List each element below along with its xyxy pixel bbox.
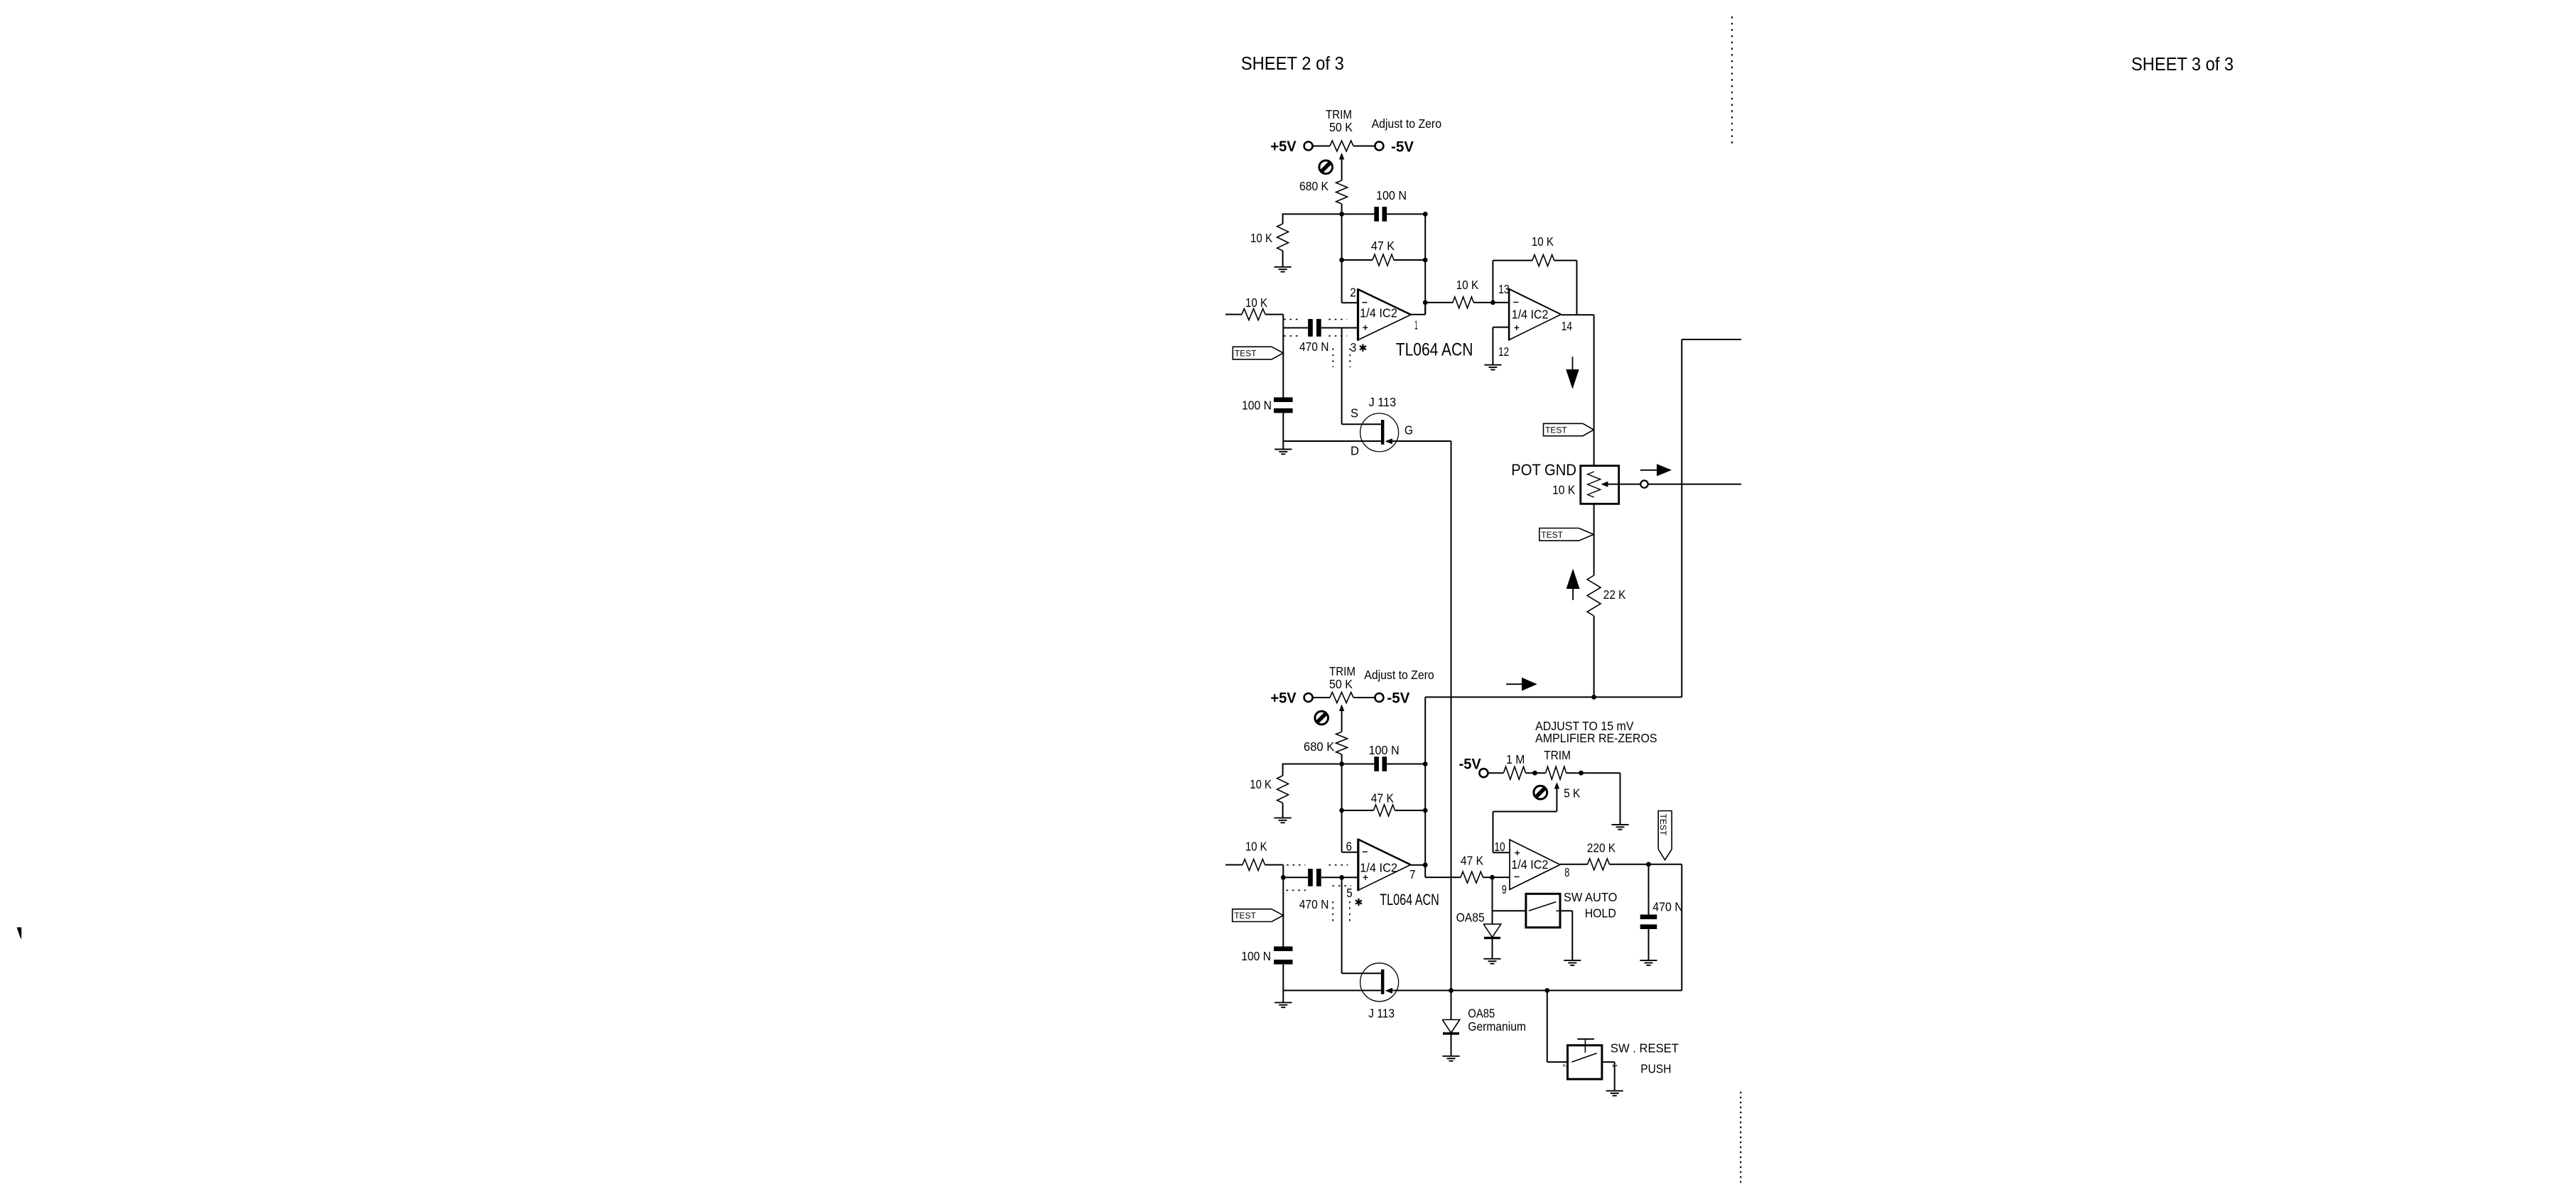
ground symbol (470N output cap)	[1640, 960, 1657, 961]
junction dot + input (bottom)	[1339, 875, 1344, 880]
wire shunt cap to D row (top)	[1282, 413, 1284, 441]
svg-text:100 N: 100 N	[1376, 188, 1407, 202]
junction dot B2-left	[1339, 808, 1344, 813]
wire 47K to pin 9	[1483, 877, 1510, 878]
wire + input row (bottom) right of cap	[1321, 877, 1358, 878]
wire pin9 node down to OA85 diode	[1492, 877, 1493, 924]
node row A1 wire left segment	[1283, 213, 1375, 215]
wire fb vertical x=2006 A1 to B1	[1424, 214, 1426, 260]
op-amp U1A minus sign	[1362, 302, 1367, 303]
terminal circle +5V (top)	[1304, 142, 1313, 151]
op-amp U1B minus sign	[1363, 851, 1368, 852]
wire U1A output corner	[1411, 314, 1425, 315]
svg-text:OA85: OA85	[1456, 911, 1485, 925]
ground symbol (top bias)	[1275, 266, 1292, 268]
svg-text:50 K: 50 K	[1329, 677, 1353, 691]
svg-text:TEST: TEST	[1235, 349, 1257, 359]
svg-text:47 K: 47 K	[1371, 791, 1394, 806]
wire fb vertical x=2006 A2-B2	[1424, 764, 1426, 810]
bus2 wire right segment	[1392, 989, 1682, 991]
right rect top wire to sheet edge	[1682, 339, 1741, 340]
op-amp U1A 1/4 IC2 triangle	[1357, 288, 1359, 340]
wire OA85 to ground	[1492, 938, 1493, 958]
op-amp U1D triangle	[1508, 288, 1510, 341]
capacitor 100 N (top feedback)	[1374, 207, 1379, 222]
svg-text:TEST: TEST	[1658, 814, 1668, 836]
resistor 10 K series	[1453, 297, 1473, 308]
wire JFET drain row (top) to ground node	[1283, 440, 1381, 442]
right rect vertical wire	[1681, 340, 1682, 698]
resistor 680 K (top)	[1336, 180, 1348, 204]
svg-text:5 K: 5 K	[1564, 786, 1581, 801]
trimmer wiper arrow (bottom)	[1339, 705, 1344, 712]
junction dot bus2/OA85	[1449, 988, 1454, 993]
wire wiper terminal to sheet edge	[1648, 484, 1741, 485]
svg-text:TEST: TEST	[1234, 911, 1256, 921]
capacitor 470 N (top input)	[1308, 319, 1313, 337]
asterisk mark (pin 5)	[1358, 899, 1359, 906]
wire node A2 down to bias 10K (bottom)	[1282, 764, 1284, 776]
wire trimmer to -5V terminal	[1353, 146, 1375, 147]
resistor 47 K (bottom feedback)	[1374, 805, 1395, 816]
wiper wire down-left to pin 10	[1556, 789, 1557, 812]
wire SW RESET to ground	[1602, 1061, 1615, 1063]
diode OA85 (hold)	[1483, 924, 1501, 938]
bus1 horizontal wire	[1425, 696, 1682, 698]
node row B2 wire left	[1342, 810, 1374, 811]
svg-text:+5V: +5V	[1270, 139, 1296, 155]
svg-text:D: D	[1351, 444, 1359, 458]
wire 680K to node A1	[1341, 204, 1343, 214]
svg-text:10 K: 10 K	[1552, 483, 1575, 497]
wire bus2 down to SW RESET	[1547, 990, 1548, 1062]
terminal circle -5V (top)	[1375, 142, 1383, 151]
switch SW RESET actuator	[1584, 1040, 1586, 1053]
diode OA85 germanium	[1442, 1020, 1460, 1034]
svg-text:-5V: -5V	[1459, 756, 1481, 773]
svg-text:OA85: OA85	[1468, 1006, 1495, 1020]
TEST tag (top input)	[1233, 347, 1283, 359]
svg-text:50 K: 50 K	[1329, 120, 1353, 134]
wire + input row (top) right of cap	[1321, 327, 1358, 329]
wire 680K to node A2	[1341, 754, 1343, 764]
wire into op-amp pin 6	[1342, 852, 1358, 853]
wire output down to POT GND	[1593, 315, 1595, 466]
resistor 10 K feedback (U1D)	[1532, 255, 1554, 266]
wire fb vertical B1 down to output corner	[1424, 260, 1426, 315]
svg-text:10 K: 10 K	[1245, 839, 1267, 853]
potentiometer POT GND resistor element	[1588, 472, 1601, 497]
wire node A1 down to 10K bias (top)	[1282, 213, 1284, 224]
svg-text:S: S	[1351, 406, 1358, 421]
svg-text:-5V: -5V	[1391, 139, 1414, 156]
junction dot A1-right	[1423, 212, 1428, 217]
svg-text:100 N: 100 N	[1242, 398, 1272, 413]
svg-text:J 113: J 113	[1369, 395, 1397, 409]
op-amp U1D plus sign	[1515, 327, 1520, 328]
svg-text:SW AUTO: SW AUTO	[1564, 890, 1618, 904]
svg-text:10 K: 10 K	[1532, 234, 1554, 249]
ground symbol (top input node)	[1275, 449, 1292, 450]
svg-text:100 N: 100 N	[1241, 949, 1271, 963]
svg-text:TL064 ACN: TL064 ACN	[1380, 891, 1439, 909]
svg-text:HOLD: HOLD	[1585, 906, 1616, 921]
svg-text:100 N: 100 N	[1369, 743, 1400, 757]
svg-text:1/4 IC2: 1/4 IC2	[1360, 861, 1397, 875]
junction dot A1-left	[1339, 212, 1344, 217]
node row A2 wire left	[1283, 764, 1375, 765]
input node vertical (bottom)	[1282, 865, 1284, 947]
U1C output wire to 220K	[1560, 864, 1588, 865]
page-edge artifact wedge	[17, 928, 22, 940]
svg-text:Germanium: Germanium	[1468, 1019, 1526, 1034]
svg-text:14: 14	[1562, 319, 1572, 333]
bus2 wire left segment	[1283, 989, 1381, 991]
wire 1M to trimmer 5K	[1526, 772, 1546, 774]
sheet cut dotted line bottom right	[1740, 1092, 1741, 1183]
resistor 10 K bias (bottom)	[1277, 776, 1289, 803]
op-amp U1D minus sign	[1513, 302, 1518, 303]
wire OA85 germanium to ground	[1451, 1034, 1452, 1056]
resistor 47 K (top feedback)	[1373, 254, 1394, 266]
svg-text:1/4 IC2: 1/4 IC2	[1360, 305, 1397, 320]
annotation right arrow (bus1)	[1506, 683, 1522, 685]
junction dot bus2/SW RESET	[1544, 988, 1549, 993]
svg-text:10 K: 10 K	[1456, 278, 1479, 292]
svg-text:8: 8	[1564, 865, 1569, 879]
svg-text:TRIM: TRIM	[1326, 107, 1352, 121]
wire -5V to 1M	[1488, 772, 1503, 774]
svg-text:1/4 IC2: 1/4 IC2	[1512, 308, 1549, 322]
capacitor 100 N (bottom feedback)	[1374, 756, 1379, 771]
svg-text:AMPLIFIER RE-ZEROS: AMPLIFIER RE-ZEROS	[1535, 731, 1657, 745]
bus2 right corner up to 220K node	[1681, 864, 1682, 991]
svg-text:1: 1	[1414, 318, 1418, 332]
wire 22K down to bus1	[1593, 616, 1595, 697]
op-amp U1C minus sign	[1515, 876, 1520, 877]
capacitor 470 N (bottom input)	[1308, 869, 1313, 886]
screwdriver adjust symbol (top trimmer)	[1319, 161, 1333, 174]
svg-text:PUSH: PUSH	[1640, 1061, 1671, 1075]
resistor 1 M	[1503, 766, 1525, 779]
svg-text:Adjust to Zero: Adjust to Zero	[1372, 116, 1441, 131]
junction dot U1B output	[1423, 862, 1428, 867]
wire output node down and right to 47K	[1424, 865, 1426, 877]
annotation right arrow (pot wiper)	[1640, 470, 1657, 471]
bus1 left corner down to node A2	[1424, 697, 1426, 764]
wire fb node down to JFET source (top)	[1341, 328, 1343, 425]
node row A2 wire right	[1387, 764, 1425, 765]
wire fb vertical x=1888.6 A1 to B1	[1341, 214, 1343, 260]
capacitor 100 N shunt (bottom)	[1274, 946, 1292, 951]
wire +5V to trimmer (bottom)	[1313, 697, 1330, 698]
wire 5K to right corner	[1566, 772, 1620, 774]
svg-text:47 K: 47 K	[1461, 853, 1483, 867]
svg-text:12: 12	[1498, 345, 1509, 359]
wire + input row (bottom) left of cap	[1283, 877, 1308, 878]
ground symbol (OA85 hold)	[1483, 958, 1500, 960]
resistor 10 K bias (top)	[1277, 224, 1289, 251]
svg-text:680 K: 680 K	[1299, 179, 1328, 193]
svg-text:TEST: TEST	[1545, 425, 1567, 435]
wire into op-amp pin 2	[1342, 302, 1358, 303]
svg-text:9: 9	[1502, 882, 1507, 896]
junction dot B2-right	[1423, 808, 1428, 813]
terminal circle -5V (5K trim row)	[1479, 769, 1488, 777]
ground symbol (bottom bias)	[1275, 817, 1292, 818]
trimmer resistor 50 K (bottom)	[1330, 693, 1353, 703]
junction dot A2-left	[1339, 761, 1344, 766]
svg-text:22 K: 22 K	[1603, 587, 1626, 602]
svg-text:POT GND: POT GND	[1511, 461, 1576, 479]
junction dot B1-right	[1423, 258, 1428, 263]
trimmer resistor 5 K	[1546, 766, 1566, 779]
wire +5V to trimmer R TRIM 50K	[1313, 146, 1330, 147]
wire 220K node down to 470N cap	[1648, 864, 1650, 915]
wire series 10K to pin13 node	[1473, 302, 1509, 303]
sheet cut dotted line top	[1731, 16, 1733, 146]
terminal circle -5V (bottom)	[1375, 693, 1383, 702]
potentiometer wiper arrow	[1601, 482, 1608, 487]
ground symbol (SW RESET)	[1606, 1090, 1623, 1092]
wire U1D feedback up	[1492, 261, 1493, 303]
svg-text:470 N: 470 N	[1299, 340, 1329, 354]
svg-text:47 K: 47 K	[1371, 239, 1395, 253]
wire gate vertical long x=2042.5	[1451, 441, 1452, 990]
junction dot 1M/5K	[1532, 771, 1537, 776]
switch SW AUTO HOLD box	[1526, 894, 1560, 927]
wire output node to series 10K	[1425, 302, 1453, 303]
svg-text:1 M: 1 M	[1506, 752, 1525, 766]
svg-text:TRIM: TRIM	[1544, 748, 1571, 762]
screwdriver adjust symbol (5K)	[1534, 786, 1547, 799]
node row B1 wire right	[1394, 259, 1425, 261]
svg-text:SW . RESET: SW . RESET	[1611, 1041, 1679, 1056]
asterisk mark (pin 3)	[1362, 344, 1363, 351]
svg-text:2: 2	[1350, 286, 1356, 300]
resistor 22 K	[1587, 575, 1601, 616]
svg-text:1/4 IC2: 1/4 IC2	[1511, 857, 1548, 872]
terminal circle (pot wiper)	[1640, 480, 1647, 487]
op-amp U1C plus sign	[1515, 852, 1520, 854]
wire bias to ground (bottom)	[1282, 803, 1284, 818]
wire node vertical (top input node)	[1282, 315, 1284, 398]
resistor 10 K input (top)	[1242, 309, 1265, 320]
transistor Q2 J113 JFET (bottom)	[1360, 963, 1399, 1002]
resistor 47 K series (to pin 9)	[1461, 872, 1483, 883]
wire 470N cap to ground	[1648, 929, 1650, 960]
TEST tag vertical (220K node)	[1658, 811, 1672, 860]
input wire (top) left stub	[1225, 314, 1242, 315]
input wire (bottom) left stub	[1225, 864, 1243, 866]
junction dot 22K/bus1	[1591, 695, 1596, 700]
annotation down arrow	[1572, 357, 1574, 369]
screwdriver adjust symbol (bottom trimmer)	[1315, 711, 1328, 725]
node row B2 wire right	[1395, 810, 1426, 811]
TEST tag (bottom input)	[1233, 909, 1284, 922]
potentiometer POT GND box	[1581, 466, 1619, 504]
junction dot A2-right	[1423, 761, 1428, 766]
switch SW RESET box	[1568, 1046, 1602, 1080]
ground symbol (OA85 germanium)	[1442, 1056, 1459, 1057]
wire fb vertical x=1888.6 A2-B2	[1341, 764, 1343, 810]
svg-text:-5V: -5V	[1387, 690, 1409, 706]
svg-text:J 113: J 113	[1368, 1006, 1395, 1020]
wire 10K bias to ground (top)	[1282, 251, 1284, 267]
trimmer wiper arrow (top)	[1339, 153, 1344, 160]
svg-text:13: 13	[1498, 282, 1510, 296]
wire POT GND bottom down	[1593, 504, 1595, 575]
junction dot 5K right	[1579, 771, 1584, 776]
terminal circle +5V (bottom)	[1304, 693, 1313, 702]
wire pin 12 to ground	[1493, 327, 1509, 328]
svg-text:470 N: 470 N	[1299, 897, 1329, 911]
trimmer resistor 50 K (top)	[1330, 141, 1353, 151]
capacitor 470 N (output)	[1640, 915, 1657, 920]
svg-text:5: 5	[1346, 886, 1353, 900]
wire 220K to right corner	[1609, 864, 1682, 865]
trimmer 5K wiper arrow	[1554, 782, 1559, 788]
wire shunt cap to bus2 (bottom)	[1282, 965, 1284, 991]
wire fb vertical B2 down to pin6 corner	[1341, 810, 1343, 852]
wire U1D output to right corner	[1561, 314, 1593, 315]
guard shield dotted lines (bottom cap)	[1287, 864, 1305, 866]
svg-text:10 K: 10 K	[1250, 231, 1272, 245]
svg-text:10: 10	[1494, 840, 1505, 854]
switch SW RESET lever	[1572, 1053, 1597, 1063]
svg-text:470 N: 470 N	[1652, 900, 1683, 914]
guard shield dotted lines (top cap)	[1284, 319, 1301, 320]
wire JFET gate row (top) to right	[1392, 440, 1451, 442]
input wire to node corner (top)	[1265, 314, 1283, 315]
ground symbol (5K net)	[1611, 824, 1628, 825]
wire fb node down to JFET2 source	[1341, 877, 1343, 973]
wire + input row (top) left of cap	[1283, 327, 1308, 329]
wire SW AUTO HOLD to ground	[1560, 910, 1572, 911]
ground symbol (pin 12)	[1484, 364, 1501, 366]
svg-text:SHEET 3 of 3: SHEET 3 of 3	[2131, 55, 2234, 75]
resistor 680 K (bottom)	[1336, 732, 1348, 754]
op-amp U1B triangle	[1357, 839, 1359, 891]
svg-text:2: 2	[1562, 1064, 1569, 1068]
svg-text:TL064 ACN: TL064 ACN	[1396, 340, 1473, 360]
transistor Q1 J113 JFET (top)	[1360, 413, 1399, 452]
svg-text:220 K: 220 K	[1587, 840, 1616, 855]
svg-text:+5V: +5V	[1270, 690, 1296, 706]
input wire to corner (bottom)	[1265, 864, 1284, 866]
svg-text:10 K: 10 K	[1250, 777, 1272, 791]
svg-text:G: G	[1405, 423, 1413, 437]
wire wiper to terminal circle	[1608, 484, 1640, 485]
junction dot U1A output node	[1423, 300, 1428, 305]
capacitor 100 N shunt (top)	[1274, 397, 1293, 402]
junction dot 220K output node	[1646, 862, 1651, 867]
junction dot B1-left	[1339, 258, 1344, 263]
svg-text:TEST: TEST	[1541, 530, 1563, 540]
ground symbol (bottom input node)	[1282, 990, 1284, 1002]
node row A1 wire right segment	[1387, 213, 1425, 215]
wire trimmer to -5V (bottom)	[1353, 697, 1375, 698]
svg-text:6: 6	[1346, 840, 1353, 854]
svg-text:7: 7	[1409, 867, 1416, 882]
wire fb vertical B1 down to pin2 corner	[1341, 260, 1343, 303]
resistor 10 K input (bottom)	[1243, 859, 1265, 871]
TEST tag (below POT GND)	[1539, 528, 1594, 541]
U1B output wire to dot	[1411, 864, 1426, 866]
svg-text:Adjust to Zero: Adjust to Zero	[1364, 668, 1434, 682]
wire pin9 node to SW AUTO HOLD	[1493, 910, 1526, 911]
ground symbol (SW AUTO HOLD)	[1564, 960, 1581, 961]
svg-text:680 K: 680 K	[1304, 739, 1335, 754]
resistor 220 K	[1588, 859, 1610, 870]
junction dot input node (bottom)	[1281, 875, 1286, 880]
op-amp U1C triangle	[1509, 839, 1510, 890]
annotation up arrow	[1566, 569, 1580, 590]
svg-text:10 K: 10 K	[1245, 295, 1267, 310]
wire bus2 down to OA85 germanium	[1451, 990, 1452, 1019]
op-amp U1A plus sign	[1363, 327, 1368, 328]
wire fb vertical B2 down to output dot	[1424, 810, 1426, 865]
wire U1D feedback right + down	[1554, 260, 1577, 261]
svg-text:SHEET 2 of 3: SHEET 2 of 3	[1241, 54, 1344, 74]
op-amp U1B plus sign	[1363, 877, 1368, 878]
switch SW AUTO HOLD lever	[1529, 902, 1557, 911]
TEST tag (POT GND top)	[1544, 423, 1594, 435]
node row B1 wire left	[1342, 259, 1373, 261]
junction dot pin13 node	[1490, 300, 1495, 305]
wire 5K net down to ground	[1620, 773, 1621, 825]
svg-text:3: 3	[1351, 340, 1357, 354]
junction dot pin 9 node	[1490, 875, 1495, 880]
